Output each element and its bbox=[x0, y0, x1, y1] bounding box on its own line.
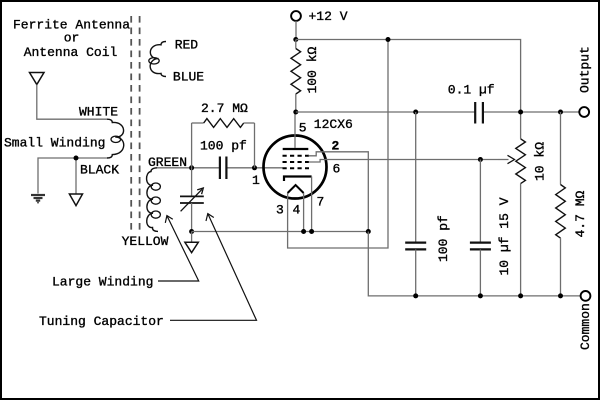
potentiometer R3 10 kΩ bbox=[498, 139, 525, 296]
terminal Common bbox=[581, 291, 591, 301]
wire 2.7M loop right bbox=[254, 123, 256, 168]
wire small winding bottom bbox=[38, 158, 107, 194]
svg-text:Antenna Coil: Antenna Coil bbox=[24, 45, 118, 60]
svg-text:100 kΩ: 100 kΩ bbox=[305, 46, 320, 93]
resistor R1 2.7 MΩ bbox=[192, 119, 255, 128]
small winding L1 bbox=[107, 119, 124, 158]
svg-text:BLUE: BLUE bbox=[173, 70, 204, 85]
label Large Winding with arrow bbox=[52, 216, 199, 290]
wire 2.7M loop left bbox=[191, 123, 193, 168]
node grid-right junction bbox=[252, 165, 257, 170]
node pot top junction bbox=[518, 110, 523, 115]
capacitor C4 100 pf (bypass) bbox=[405, 112, 426, 296]
capacitor C2 tuning (variable) bbox=[180, 168, 204, 232]
tube heater bbox=[288, 185, 304, 193]
node plate junction bbox=[293, 110, 298, 115]
wire cathode/ground bus y=231.5 bbox=[192, 231, 369, 233]
wire green line (grid line) bbox=[157, 167, 219, 169]
ground triangle (antenna return) bbox=[69, 194, 82, 206]
svg-text:7: 7 bbox=[317, 195, 325, 210]
svg-text:12CX6: 12CX6 bbox=[314, 117, 353, 132]
node BLACK junction bbox=[74, 156, 79, 161]
node grid-left junction bbox=[189, 165, 194, 170]
capacitor C1 100 pf bbox=[220, 157, 227, 180]
svg-text:6: 6 bbox=[333, 162, 341, 177]
node pin2 junction bbox=[366, 229, 371, 234]
antenna ANT1 bbox=[30, 73, 45, 85]
wire output line y=112 bbox=[296, 111, 475, 113]
op? tube U1 12CX6 envelope bbox=[264, 136, 327, 199]
wire pin6 step bbox=[309, 160, 499, 163]
node pot bottom bbox=[518, 293, 523, 298]
label Tuning Capacitor with arrow bbox=[39, 214, 257, 329]
terminal Output bbox=[579, 107, 589, 117]
ground earth (left) bbox=[31, 195, 45, 203]
tube grid row 1 bbox=[283, 155, 310, 157]
label Ferrite Antenna / Antenna Coil bbox=[13, 18, 130, 61]
svg-text:+12 V: +12 V bbox=[309, 9, 348, 24]
svg-text:or: or bbox=[64, 31, 80, 46]
node pin7 junction bbox=[309, 229, 314, 234]
large winding L3 bbox=[147, 168, 158, 232]
winding L2 RED/BLUE bbox=[150, 42, 166, 77]
wire pin7 cathode lead bbox=[311, 177, 313, 232]
capacitor C3 0.1 µf bbox=[475, 102, 483, 124]
resistor R4 4.7 MΩ bbox=[556, 112, 566, 296]
terminal +12 V bbox=[291, 11, 301, 21]
wire antenna to small winding bbox=[37, 85, 107, 120]
wire pin5 plate lead bbox=[294, 112, 296, 148]
svg-text:Small Winding: Small Winding bbox=[4, 136, 105, 151]
node 4.7M top junction bbox=[558, 110, 563, 115]
tube cathode bbox=[284, 177, 312, 182]
svg-text:4.7 MΩ: 4.7 MΩ bbox=[573, 190, 588, 237]
wire top rail bbox=[296, 40, 521, 139]
svg-text:Large Winding: Large Winding bbox=[52, 275, 153, 290]
svg-text:3: 3 bbox=[276, 203, 284, 218]
svg-text:10 µf 15 V: 10 µf 15 V bbox=[497, 197, 512, 275]
node 100pf bottom bbox=[413, 293, 418, 298]
svg-text:4: 4 bbox=[293, 203, 301, 218]
svg-text:100 pf: 100 pf bbox=[200, 139, 247, 154]
svg-text:Common: Common bbox=[578, 303, 593, 350]
svg-text:RED: RED bbox=[175, 38, 199, 53]
node heater rail junction bbox=[386, 37, 391, 42]
wire pin2 step bbox=[309, 152, 369, 232]
tube grid row 3 bbox=[283, 167, 310, 169]
wire common rail bbox=[368, 232, 581, 296]
node +12V junction bbox=[293, 37, 298, 42]
wire pin3 heater lead bbox=[288, 40, 388, 249]
svg-text:2.7 MΩ: 2.7 MΩ bbox=[201, 101, 248, 116]
resistor R2 100 kΩ bbox=[291, 40, 301, 113]
tube plate bbox=[283, 148, 309, 150]
node 10µf bottom bbox=[478, 293, 483, 298]
tube grid row 2 bbox=[283, 161, 310, 163]
svg-text:WHITE: WHITE bbox=[79, 105, 118, 120]
node tuning junction bbox=[189, 229, 194, 234]
svg-text:1: 1 bbox=[252, 173, 260, 188]
svg-text:Output: Output bbox=[578, 46, 593, 93]
svg-text:BLACK: BLACK bbox=[80, 163, 119, 178]
svg-text:Tuning Capacitor: Tuning Capacitor bbox=[39, 314, 164, 329]
wire pin4 heater lead bbox=[303, 193, 305, 232]
node pin4 junction bbox=[301, 229, 306, 234]
node wiper junction bbox=[478, 157, 483, 162]
capacitor C5 10 µf 15 V bbox=[470, 160, 491, 296]
wire +12V stem bbox=[295, 21, 297, 40]
ground triangle (tuning) bbox=[185, 232, 198, 253]
svg-text:5: 5 bbox=[299, 121, 307, 136]
svg-text:YELLOW: YELLOW bbox=[122, 234, 169, 249]
wire to black ground bbox=[75, 158, 77, 194]
svg-text:2: 2 bbox=[332, 139, 340, 154]
svg-text:10 kΩ: 10 kΩ bbox=[533, 142, 548, 181]
node 4.7M bottom bbox=[558, 293, 563, 298]
node 100pf top junction bbox=[413, 110, 418, 115]
ferrite core dashed lines bbox=[131, 16, 139, 232]
svg-text:0.1 µf: 0.1 µf bbox=[448, 83, 495, 98]
svg-text:100 pf: 100 pf bbox=[436, 215, 451, 262]
